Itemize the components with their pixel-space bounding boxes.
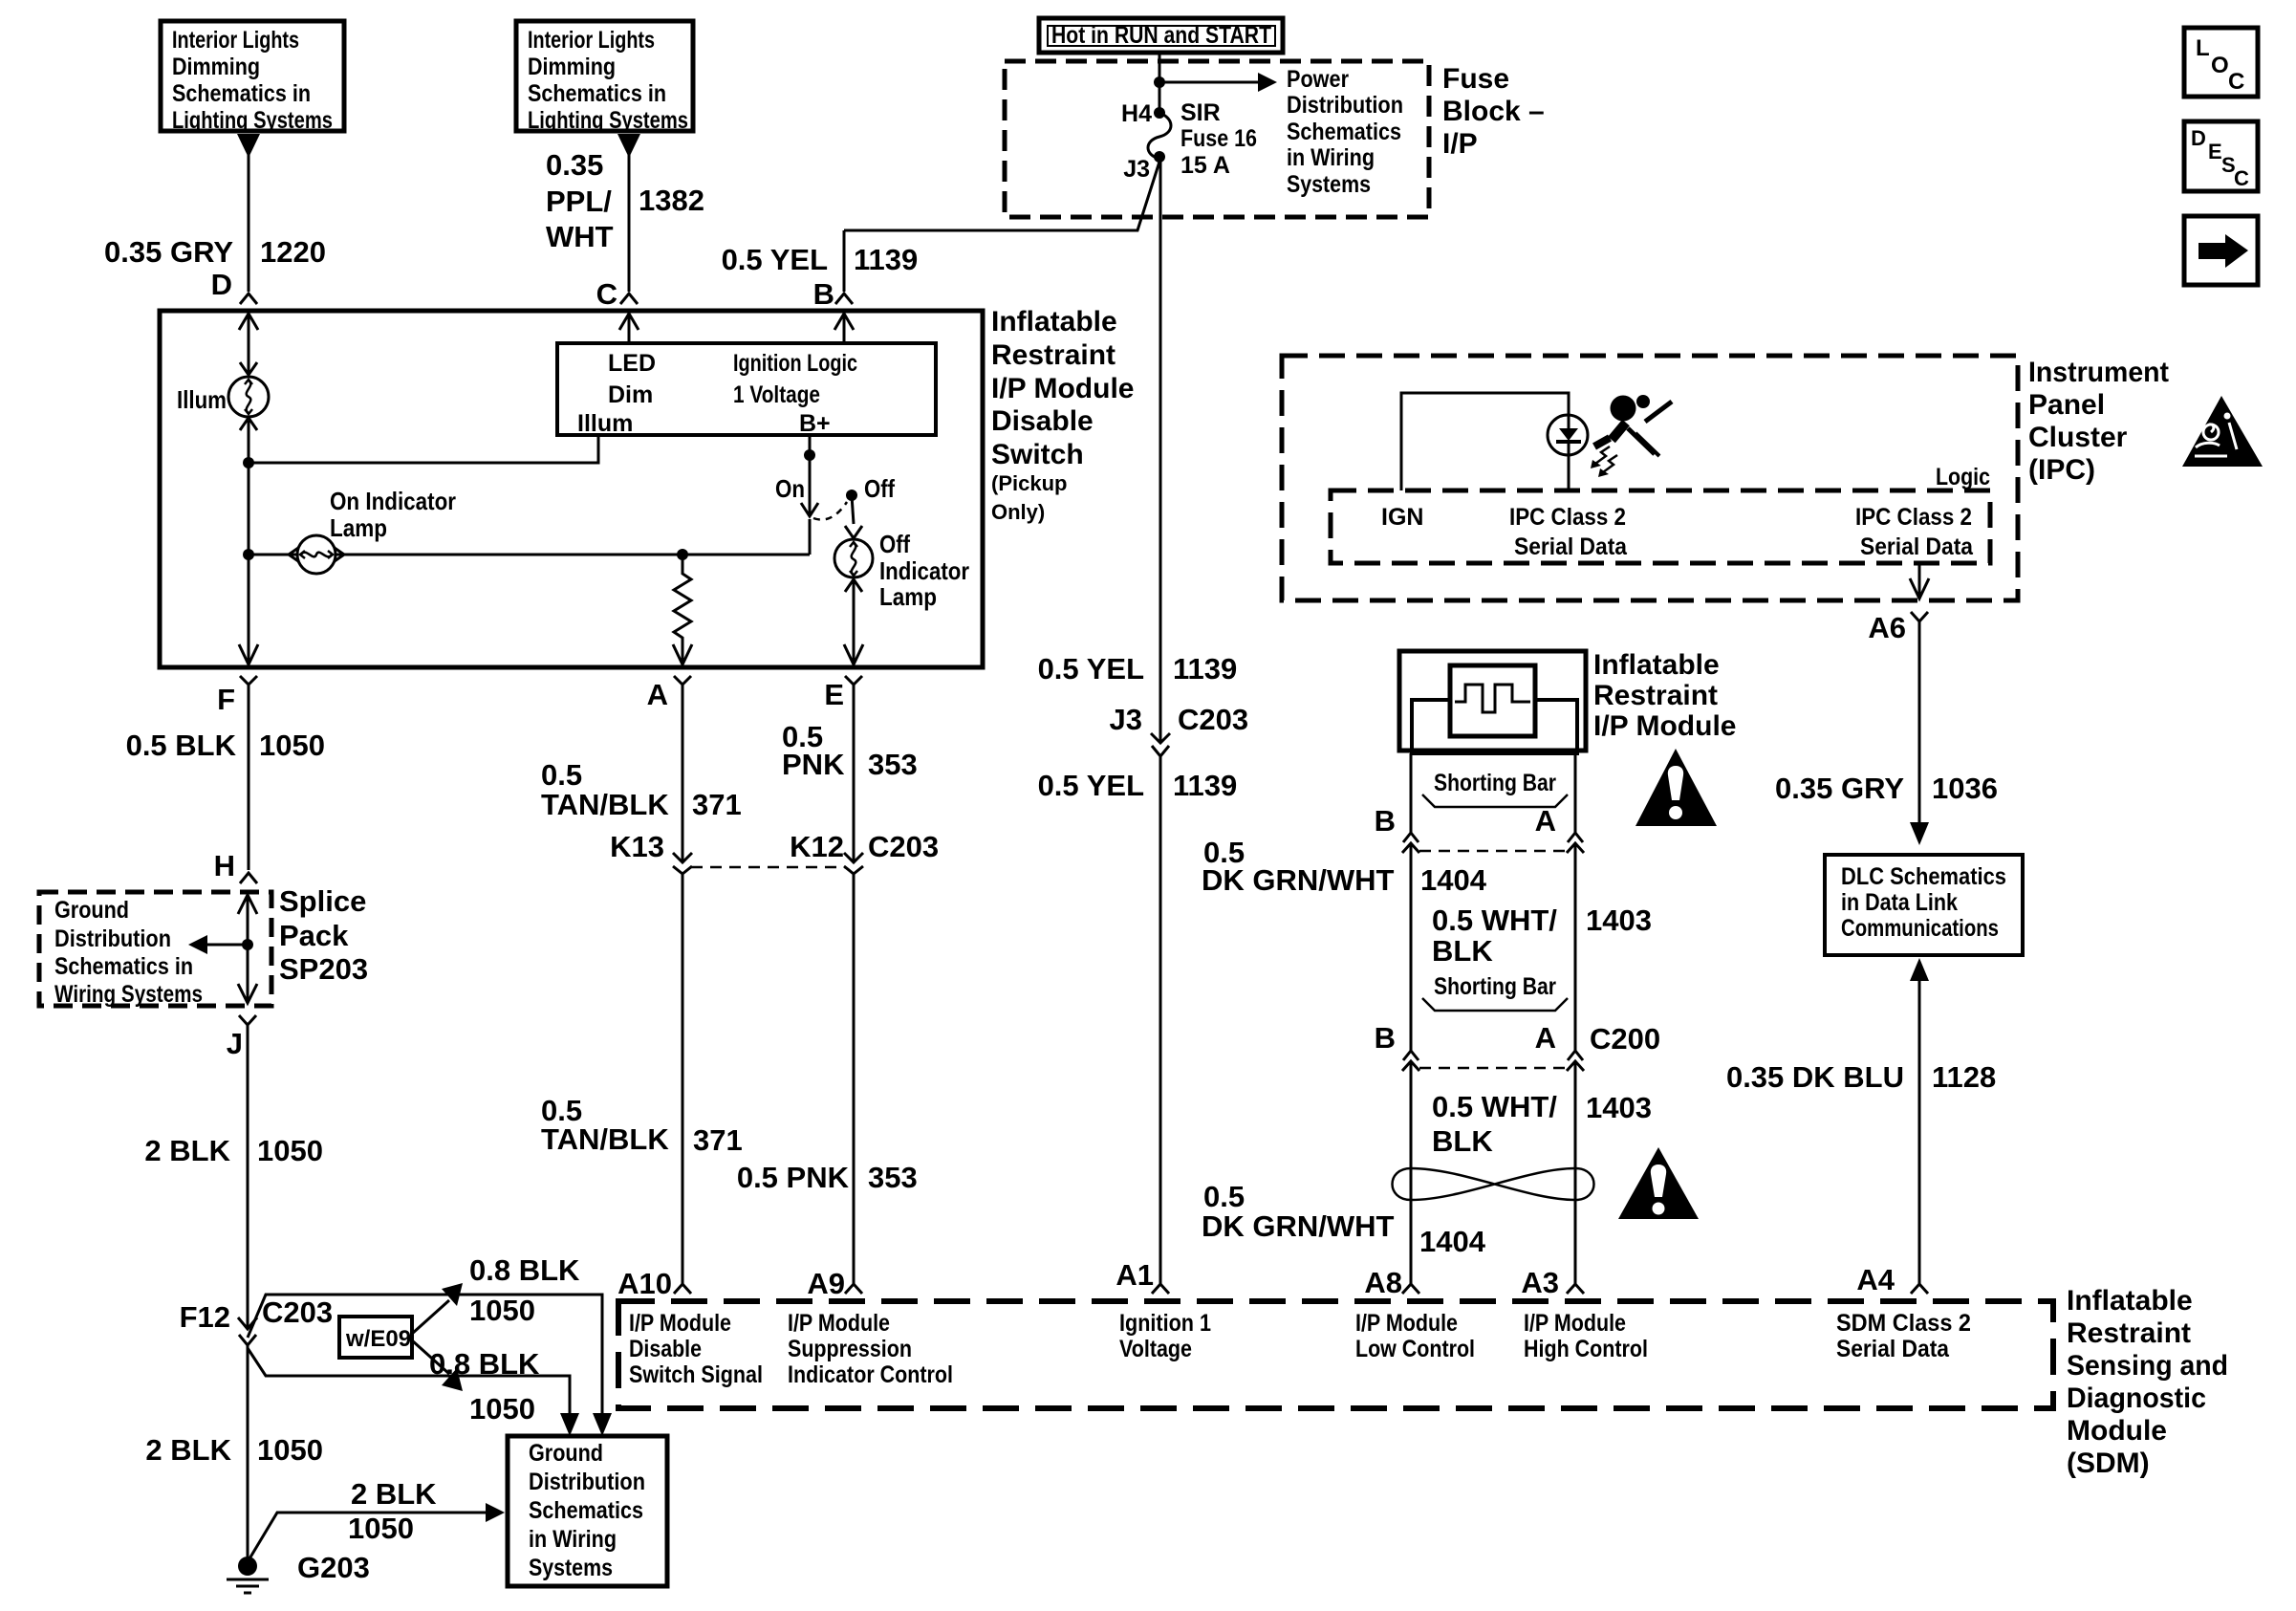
- switch blade dashed arc On-Off: [813, 502, 847, 520]
- svg-text:Cluster: Cluster: [2028, 422, 2128, 453]
- label On Indicator Lamp: [330, 487, 456, 542]
- svg-text:0.5 WHT/: 0.5 WHT/: [1432, 1090, 1557, 1123]
- arrow into DLC box: [1910, 822, 1929, 845]
- svg-text:Splice: Splice: [279, 884, 366, 918]
- arrow down inside splice box: [238, 984, 257, 1003]
- svg-text:A3: A3: [1521, 1266, 1559, 1299]
- pin A8 chevron: [1402, 1284, 1419, 1294]
- svg-text:Switch Signal: Switch Signal: [629, 1361, 763, 1388]
- dashed connector line B-A (upper): [1419, 850, 1567, 853]
- arrow from left Interior Lights box: [237, 134, 260, 158]
- svg-text:I/P Module: I/P Module: [1524, 1310, 1626, 1337]
- svg-text:Distribution: Distribution: [54, 925, 171, 952]
- svg-text:1404: 1404: [1420, 863, 1487, 897]
- svg-text:Panel: Panel: [2028, 389, 2105, 421]
- wire B to A8: [1410, 843, 1413, 1051]
- lamp: On Indicator Lamp: [289, 546, 301, 563]
- lamp: Off Indicator Lamp: [834, 539, 873, 577]
- svg-text:0.35: 0.35: [546, 148, 603, 182]
- wire label 0.5 BLK 1050: [126, 729, 325, 762]
- LED emission arrows: [1595, 446, 1610, 464]
- svg-text:Inflatable: Inflatable: [2067, 1285, 2193, 1317]
- svg-text:A: A: [647, 678, 668, 711]
- label: Instrument Panel Cluster (IPC): [2028, 357, 2169, 486]
- wire from Hot box into fuse block: [1159, 53, 1161, 113]
- dashed connector line C200: [1419, 1067, 1567, 1070]
- wire B+ from inner box down to switch: [809, 437, 812, 516]
- warning triangle (module): [1635, 749, 1717, 826]
- svg-text:A4: A4: [1856, 1263, 1895, 1296]
- arrow up at C entry: [619, 314, 639, 330]
- arrow down at E exit: [844, 644, 863, 664]
- branch wire lower 0.8 BLK: [248, 1348, 570, 1415]
- svg-text:I/P Module: I/P Module: [629, 1310, 731, 1337]
- svg-text:I/P Module: I/P Module: [1355, 1310, 1458, 1337]
- connector mark above Off lamp: [845, 526, 862, 538]
- connector chevron H: [240, 873, 257, 883]
- svg-text:1050: 1050: [257, 1433, 323, 1467]
- svg-text:Off: Off: [879, 530, 910, 558]
- branch wire upper 0.8 BLK to SDM A10 side: [248, 1295, 602, 1415]
- wire horizontal through On lamp: [249, 554, 810, 556]
- wire A to A3: [1574, 843, 1577, 1051]
- svg-text:K13: K13: [610, 830, 664, 863]
- svg-text:F: F: [217, 683, 235, 716]
- node: B+: [804, 449, 815, 461]
- svg-text:Illum: Illum: [577, 410, 633, 437]
- connector chevrons B (upper): [1403, 833, 1419, 842]
- svg-text:E: E: [824, 678, 844, 711]
- LOC icon box: [2184, 28, 2258, 97]
- svg-text:Shorting Bar: Shorting Bar: [1434, 770, 1556, 796]
- svg-text:Dim: Dim: [608, 381, 653, 408]
- svg-text:I/P Module: I/P Module: [788, 1310, 890, 1337]
- svg-text:Dimming: Dimming: [528, 54, 616, 80]
- connector chevrons B (C200): [1403, 1051, 1419, 1060]
- IPC outer dashed box: Instrument Panel Cluster: [1282, 356, 2018, 600]
- svg-text:Block –: Block –: [1442, 96, 1545, 127]
- wire label 2 BLK 1050: [144, 1134, 323, 1167]
- svg-text:C203: C203: [1178, 703, 1248, 736]
- arrow up at B entry: [834, 314, 854, 330]
- component box: Inflatable Restraint I/P Module: [1399, 651, 1586, 751]
- svg-text:On Indicator: On Indicator: [330, 487, 456, 515]
- pin A1 chevron: [1152, 1284, 1169, 1294]
- svg-text:BLK: BLK: [1432, 934, 1493, 968]
- svg-text:Distribution: Distribution: [529, 1469, 645, 1495]
- svg-text:High Control: High Control: [1524, 1336, 1648, 1362]
- svg-text:Fuse: Fuse: [1442, 63, 1509, 95]
- warning triangle (IPC airbag caution): [2182, 396, 2263, 467]
- svg-text:in Wiring: in Wiring: [529, 1526, 617, 1553]
- wire label 0.35 GRY 1220: [104, 235, 326, 269]
- svg-text:A: A: [1535, 1021, 1556, 1055]
- svg-text:A: A: [1535, 804, 1556, 838]
- ground G203: [238, 1557, 257, 1576]
- IPC logic inner dashed box: [1331, 490, 1990, 563]
- svg-text:Indicator: Indicator: [879, 556, 969, 585]
- wire E (PNK 353) upper segment: [845, 676, 862, 862]
- DESC icon box: [2184, 121, 2258, 191]
- wire label 0.35 GRY 1036: [1775, 772, 1998, 805]
- connector mark below Illum lamp: [240, 418, 257, 430]
- svg-text:Distribution: Distribution: [1287, 92, 1403, 119]
- svg-text:J: J: [227, 1027, 243, 1060]
- svg-text:K12: K12: [790, 830, 844, 863]
- svg-text:w/E09: w/E09: [345, 1326, 411, 1352]
- wire E lower segment to SDM A9: [853, 874, 856, 1284]
- component box: Inflatable Restraint I/P Module Disable Switch: [160, 311, 983, 667]
- svg-text:Lighting Systems: Lighting Systems: [528, 107, 688, 134]
- wire label 0.5 WHT/BLK 1403 (lower): [1432, 1090, 1652, 1158]
- svg-text:1050: 1050: [469, 1294, 535, 1327]
- svg-text:PNK: PNK: [782, 748, 845, 781]
- svg-text:1050: 1050: [469, 1392, 535, 1426]
- svg-text:Low Control: Low Control: [1355, 1336, 1475, 1362]
- svg-text:A1: A1: [1116, 1258, 1154, 1292]
- wire label 0.5 YEL 1139 (below C203): [1038, 769, 1238, 802]
- svg-text:Instrument: Instrument: [2028, 357, 2169, 388]
- svg-text:1403: 1403: [1586, 1091, 1652, 1124]
- connector mark above Illum lamp: [240, 362, 257, 375]
- svg-text:(Pickup: (Pickup: [991, 471, 1067, 495]
- svg-text:0.5 YEL: 0.5 YEL: [722, 243, 828, 276]
- svg-text:Schematics in: Schematics in: [528, 80, 666, 107]
- svg-text:Restraint: Restraint: [1593, 680, 1718, 711]
- pin F connector chevron: [240, 676, 257, 870]
- svg-text:Shorting Bar: Shorting Bar: [1434, 973, 1556, 1000]
- wire label 0.35 PPL/WHT 1382: [546, 148, 704, 253]
- svg-text:1403: 1403: [1586, 903, 1652, 937]
- svg-text:O: O: [2211, 53, 2229, 78]
- connector chevron C: [620, 294, 638, 304]
- connector F12 C203 inline: [238, 1317, 257, 1329]
- Hot in RUN and START box: [1039, 18, 1283, 53]
- wire label 0.5 DK GRN/WHT 1404 (lower): [1202, 1180, 1486, 1258]
- wire from Illum lamp down to box bottom: [248, 421, 250, 664]
- svg-text:371: 371: [693, 1123, 743, 1157]
- SDM pin function labels: [629, 1310, 763, 1388]
- svg-text:I/P Module: I/P Module: [991, 373, 1134, 404]
- node: illum branch: [243, 457, 254, 468]
- reference box: DLC Schematics in Data Link Communications: [1825, 855, 2023, 955]
- svg-text:D: D: [2191, 126, 2206, 150]
- svg-text:H4: H4: [1121, 100, 1152, 127]
- svg-text:Ground: Ground: [529, 1440, 603, 1467]
- connector K13 arrow + chevron: [673, 853, 692, 862]
- wire label 0.35 DK BLU 1128: [1726, 1060, 1996, 1094]
- svg-text:0.35 GRY: 0.35 GRY: [104, 235, 233, 269]
- reference box: Interior Lights Dimming Schematics (middle): [516, 21, 693, 134]
- connector chevron D: [240, 294, 257, 304]
- label Splice Pack SP203: [279, 884, 368, 986]
- svg-text:0.5 BLK: 0.5 BLK: [126, 729, 237, 762]
- svg-text:B: B: [1375, 804, 1396, 838]
- fuse F16 SIR Fuse 16 15 A: [1148, 113, 1171, 159]
- svg-text:1404: 1404: [1419, 1225, 1486, 1258]
- reference box: Ground Distribution Schematics in Wiring Systems: [508, 1436, 667, 1586]
- svg-text:Lighting Systems: Lighting Systems: [172, 107, 333, 134]
- svg-text:(SDM): (SDM): [2067, 1448, 2150, 1479]
- svg-text:SDM Class 2: SDM Class 2: [1836, 1310, 1971, 1337]
- svg-text:Restraint: Restraint: [2067, 1317, 2191, 1349]
- svg-text:IPC Class 2: IPC Class 2: [1855, 504, 1972, 531]
- connector chevrons A (upper): [1568, 833, 1583, 842]
- svg-text:1139: 1139: [1173, 769, 1237, 802]
- svg-text:Pack: Pack: [279, 919, 349, 952]
- inner box: switch electronics module: [557, 343, 936, 435]
- wire label 2 BLK 1050 (lower): [145, 1433, 323, 1467]
- svg-text:371: 371: [692, 788, 742, 821]
- pin A10 chevron: [674, 1284, 691, 1294]
- svg-text:1 Voltage: 1 Voltage: [733, 381, 820, 408]
- svg-text:Restraint: Restraint: [991, 339, 1116, 371]
- wire C entry to inner box: [628, 315, 631, 343]
- wire switch On contact to lamp row: [809, 519, 812, 555]
- svg-text:2 BLK: 2 BLK: [145, 1433, 231, 1467]
- svg-text:TAN/BLK: TAN/BLK: [541, 788, 669, 821]
- wire B vertical with label 0.5 YEL 1139: [843, 230, 846, 292]
- svg-text:1050: 1050: [257, 1134, 323, 1167]
- svg-text:Off: Off: [864, 474, 895, 503]
- svg-text:Wiring Systems: Wiring Systems: [54, 981, 203, 1008]
- svg-text:Schematics: Schematics: [1287, 119, 1401, 145]
- arrows into ground distribution box: [560, 1413, 579, 1436]
- svg-text:Logic: Logic: [1936, 464, 1990, 490]
- connector mark below Off lamp: [845, 579, 862, 592]
- svg-text:Interior Lights: Interior Lights: [528, 27, 655, 54]
- label 0.8 BLK 1050 (upper): [469, 1253, 580, 1327]
- wire LED to logic box: [1568, 455, 1570, 490]
- svg-text:Suppression: Suppression: [788, 1336, 912, 1362]
- svg-text:Ignition 1: Ignition 1: [1119, 1310, 1211, 1337]
- svg-text:in Wiring: in Wiring: [1287, 144, 1375, 171]
- svg-text:Switch: Switch: [991, 439, 1084, 470]
- svg-text:A8: A8: [1364, 1266, 1402, 1299]
- svg-text:Schematics in: Schematics in: [54, 953, 193, 980]
- dashed connector line K13-K12: [691, 866, 845, 869]
- label: Fuse Block - I/P: [1442, 63, 1545, 160]
- svg-text:B+: B+: [799, 410, 831, 437]
- svg-text:C203: C203: [868, 830, 939, 863]
- twisted pair symbol: [1393, 1168, 1594, 1200]
- wire from D entry to Illum lamp: [248, 315, 250, 375]
- svg-text:0.5 YEL: 0.5 YEL: [1038, 769, 1144, 802]
- svg-text:C: C: [2228, 69, 2244, 95]
- svg-text:Voltage: Voltage: [1119, 1336, 1192, 1362]
- svg-text:Lamp: Lamp: [330, 513, 387, 542]
- lamp: Illum illumination lamp: [228, 377, 269, 417]
- svg-text:Inflatable: Inflatable: [991, 306, 1117, 337]
- svg-text:Systems: Systems: [1287, 171, 1371, 198]
- svg-text:PPL/: PPL/: [546, 185, 612, 218]
- svg-text:Serial Data: Serial Data: [1836, 1336, 1950, 1362]
- svg-text:DK GRN/WHT: DK GRN/WHT: [1202, 863, 1395, 897]
- svg-text:DLC Schematics: DLC Schematics: [1841, 863, 2006, 890]
- wire B entry to inner box: [843, 315, 846, 343]
- node: power distribution branch: [1154, 76, 1165, 88]
- squib inner box: [1450, 665, 1535, 736]
- pin A9 chevron: [845, 1284, 862, 1294]
- wire ignition 0.5 YEL 1139 from fuse J3 down: [1159, 157, 1162, 743]
- SDM dashed box: Inflatable Restraint Sensing and Diagnostic Module: [618, 1301, 2053, 1408]
- svg-text:A6: A6: [1868, 611, 1906, 644]
- svg-text:Ignition Logic: Ignition Logic: [733, 350, 857, 377]
- svg-text:TAN/BLK: TAN/BLK: [541, 1122, 669, 1156]
- svg-text:353: 353: [868, 1161, 918, 1194]
- arrow up at D entry: [239, 314, 258, 330]
- pin A3 chevron: [1567, 1284, 1584, 1294]
- wire module A down: [1574, 753, 1577, 833]
- pin A6 chevron: [1911, 612, 1928, 824]
- arrow from middle Interior Lights box: [617, 134, 640, 158]
- wire D vertical: [248, 153, 250, 292]
- svg-text:2 BLK: 2 BLK: [351, 1477, 437, 1511]
- svg-text:F12: F12: [180, 1300, 230, 1334]
- svg-text:Schematics: Schematics: [529, 1497, 643, 1524]
- svg-text:0.35 GRY: 0.35 GRY: [1775, 772, 1904, 805]
- label: Inflatable Restraint Sensing and Diagnostic Module (SDM): [2067, 1285, 2228, 1479]
- svg-text:Schematics in: Schematics in: [172, 80, 311, 107]
- svg-text:BLK: BLK: [1432, 1124, 1493, 1158]
- svg-text:0.5 WHT/: 0.5 WHT/: [1432, 903, 1557, 937]
- svg-text:C203: C203: [262, 1295, 333, 1329]
- svg-text:SIR: SIR: [1180, 99, 1221, 126]
- wire C vertical: [628, 153, 631, 292]
- svg-text:0.8 BLK: 0.8 BLK: [429, 1347, 540, 1381]
- label: Inflatable Restraint I/P Module: [1593, 649, 1736, 742]
- svg-text:353: 353: [868, 748, 918, 781]
- svg-text:J3: J3: [1110, 703, 1142, 736]
- squib element: [1455, 685, 1530, 712]
- svg-text:A10: A10: [617, 1267, 672, 1300]
- svg-text:Sensing and: Sensing and: [2067, 1350, 2228, 1382]
- wire A (TAN/BLK 371) upper segment: [674, 676, 691, 862]
- svg-text:IPC Class 2: IPC Class 2: [1509, 504, 1626, 531]
- wire IPC class2 to A6: [1918, 563, 1921, 599]
- svg-text:G203: G203: [297, 1551, 370, 1584]
- svg-text:Ground: Ground: [54, 897, 129, 924]
- svg-text:0.5 PNK: 0.5 PNK: [737, 1161, 850, 1194]
- svg-text:(IPC): (IPC): [2028, 454, 2095, 486]
- svg-text:IGN: IGN: [1381, 504, 1423, 531]
- svg-text:WHT: WHT: [546, 220, 614, 253]
- airbag deploy icon: [1611, 396, 1636, 422]
- svg-text:B: B: [813, 277, 834, 311]
- svg-text:2 BLK: 2 BLK: [144, 1134, 230, 1167]
- svg-text:Illum: Illum: [177, 385, 227, 414]
- svg-text:L: L: [2196, 35, 2210, 61]
- svg-text:1139: 1139: [854, 243, 918, 276]
- resistor R: [674, 555, 691, 664]
- svg-text:C200: C200: [1590, 1022, 1660, 1056]
- connector chevrons A (C200): [1568, 1051, 1583, 1060]
- svg-text:0.5: 0.5: [1203, 1180, 1245, 1213]
- wire IGN to LED: [1401, 393, 1569, 490]
- svg-text:J3: J3: [1123, 156, 1150, 183]
- wire 2 BLK 1050 horizontal to ground box: [249, 1513, 486, 1560]
- wire A lower segment to SDM A10: [682, 874, 684, 1284]
- node: on-lamp branch: [243, 549, 254, 560]
- svg-text:1050: 1050: [348, 1512, 414, 1545]
- label: Power Distribution Schematics in Wiring Systems: [1287, 66, 1403, 198]
- svg-text:Hot in RUN and START: Hot in RUN and START: [1051, 22, 1271, 49]
- svg-text:0.5 YEL: 0.5 YEL: [1038, 652, 1144, 686]
- reference box: Interior Lights Dimming Schematics (left): [161, 21, 344, 134]
- switch Off contact: [846, 490, 857, 501]
- splice pack dashed box: Ground Distribution Schematics in Wiring Systems: [39, 892, 271, 1006]
- label: Inflatable Restraint I/P Module Disable Switch (Pickup Only): [991, 306, 1134, 524]
- Fuse Block I/P dashed box: [1005, 61, 1429, 217]
- arrow icon box: [2184, 216, 2258, 285]
- w/E09 arrows: [412, 1300, 449, 1334]
- arrow down at F exit: [239, 644, 258, 664]
- LED airbag indicator lamp: [1548, 415, 1588, 455]
- svg-text:I/P Module: I/P Module: [1593, 710, 1736, 742]
- svg-text:1382: 1382: [639, 184, 704, 217]
- svg-text:1128: 1128: [1932, 1060, 1996, 1094]
- connector J3 C203 inline: [1110, 703, 1249, 736]
- svg-text:Serial Data: Serial Data: [1860, 533, 1974, 560]
- svg-text:C: C: [2234, 166, 2249, 190]
- label 0.8 BLK 1050 (lower): [429, 1347, 540, 1426]
- svg-text:Communications: Communications: [1841, 915, 1999, 942]
- svg-text:Dimming: Dimming: [172, 54, 260, 80]
- svg-text:Serial Data: Serial Data: [1514, 533, 1628, 560]
- svg-text:Disable: Disable: [991, 405, 1094, 437]
- node SP203: [242, 939, 253, 950]
- svg-text:Indicator Control: Indicator Control: [788, 1361, 953, 1388]
- connector C203 K13/K12 labels: [610, 830, 939, 863]
- svg-text:I/P: I/P: [1442, 128, 1478, 160]
- svg-text:Module: Module: [2067, 1415, 2167, 1447]
- warning triangle (harness): [1618, 1147, 1699, 1219]
- node: resistor branch: [677, 549, 688, 560]
- pin J connector chevron: [239, 1015, 256, 1329]
- svg-text:D: D: [211, 268, 232, 301]
- connector K12 arrow + chevron: [844, 853, 863, 862]
- svg-text:On: On: [775, 474, 805, 503]
- arrow down at A exit: [673, 644, 692, 664]
- svg-text:Inflatable: Inflatable: [1593, 649, 1720, 681]
- svg-text:0.5: 0.5: [541, 758, 582, 792]
- svg-text:H: H: [214, 849, 235, 882]
- wire label 0.5 WHT/BLK 1403 (upper): [1432, 903, 1652, 968]
- wire module B down: [1410, 753, 1413, 833]
- svg-text:Systems: Systems: [529, 1555, 613, 1581]
- wire illum branch to inner module: [249, 437, 598, 463]
- wire from fuse J3 to B (horizontal + diagonal): [844, 159, 1160, 230]
- svg-text:Power: Power: [1287, 66, 1349, 93]
- svg-text:A9: A9: [807, 1267, 845, 1300]
- svg-text:LED: LED: [608, 350, 656, 377]
- connector chevron B: [835, 294, 853, 304]
- arrow down at switch On contact: [801, 503, 818, 516]
- svg-text:C: C: [596, 277, 617, 311]
- svg-text:Diagnostic: Diagnostic: [2067, 1382, 2206, 1414]
- svg-text:in Data Link: in Data Link: [1841, 889, 1958, 916]
- svg-text:15 A: 15 A: [1180, 152, 1230, 179]
- svg-text:Fuse 16: Fuse 16: [1180, 125, 1257, 152]
- pin A4 chevron: [1911, 1284, 1928, 1294]
- svg-text:DK GRN/WHT: DK GRN/WHT: [1202, 1209, 1395, 1243]
- arrow up into DLC box bottom: [1910, 958, 1929, 981]
- svg-text:0.35 DK BLU: 0.35 DK BLU: [1726, 1060, 1904, 1094]
- arrow left to ground distribution: [206, 944, 248, 947]
- svg-text:Interior Lights: Interior Lights: [172, 27, 299, 54]
- svg-text:E: E: [2208, 140, 2222, 163]
- wire Off lamp to box bottom E exit: [853, 581, 856, 664]
